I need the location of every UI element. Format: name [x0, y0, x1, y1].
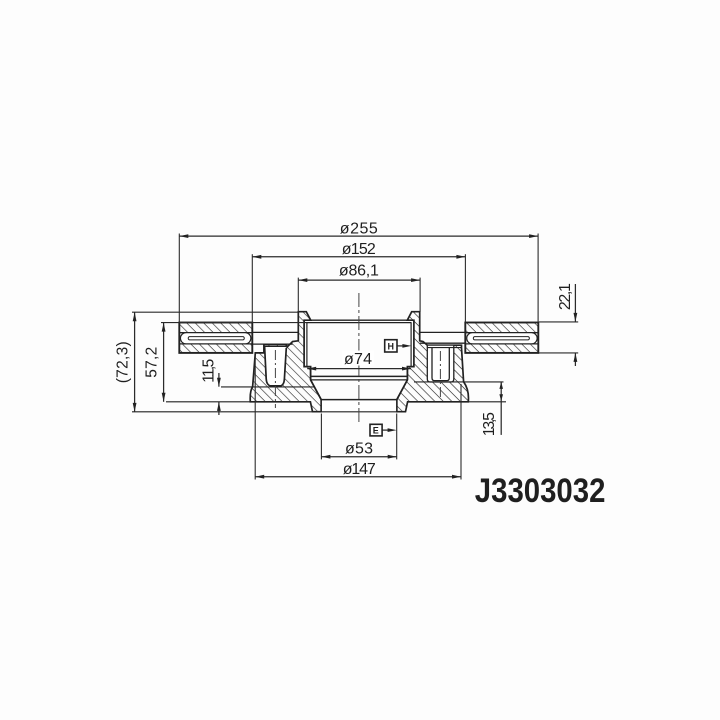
bridge web left lines [252, 331, 298, 333]
dimension Ø255 [179, 220, 538, 322]
hat body hatched mass left [250, 312, 321, 412]
hub bottom line (72.3 extension + hub bottom faces) [132, 411, 406, 413]
bore upper wall left double [303, 323, 305, 367]
svg-text:11,5: 11,5 [201, 359, 218, 383]
svg-text:ø147: ø147 [343, 461, 376, 478]
bore-to-recess chamfer right [397, 380, 408, 400]
bore-to-recess chamfer left [311, 380, 322, 400]
vent slot right inner capsule [473, 337, 529, 340]
hat body hatched mass right [397, 312, 469, 412]
dimension Ø152 [252, 241, 465, 322]
svg-text:(72,3): (72,3) [115, 341, 132, 383]
threaded hole right mouth lines [427, 344, 461, 346]
svg-text:ø152: ø152 [342, 241, 376, 258]
hub recess (white) [321, 400, 397, 412]
dimension 57,2 [144, 323, 307, 402]
svg-text:E: E [373, 426, 379, 436]
svg-text:ø74: ø74 [344, 351, 372, 368]
svg-text:J3303032: J3303032 [475, 472, 606, 510]
label H box [385, 340, 412, 352]
hub recess walls [320, 400, 322, 412]
vent slot left inner capsule [188, 337, 244, 340]
svg-text:ø86,1: ø86,1 [339, 263, 379, 280]
bore step lines [304, 366, 311, 368]
bolt hole left (white cutout) [265, 346, 287, 386]
threaded hole right ID walls [432, 348, 449, 381]
bolt hole left mouth chamfer lines [264, 344, 287, 346]
dimension Ø53 [321, 414, 396, 460]
threaded hole right (white cutout) [427, 345, 454, 382]
dimension 13,5 [481, 382, 503, 436]
hub bore recessed top face lines [307, 319, 412, 321]
svg-text:22,1: 22,1 [557, 283, 574, 310]
dimension (72,3) [115, 312, 299, 412]
flange bottom line (57.2 extension + flange bottom) [166, 401, 310, 403]
flange top edge left [221, 386, 314, 388]
dimension Ø74 [307, 351, 411, 371]
friction band left outline [179, 323, 252, 353]
threaded hole right axis [439, 351, 441, 398]
label E box [370, 424, 397, 436]
svg-text:13,5: 13,5 [481, 412, 498, 436]
dimension 22,1 [539, 283, 578, 366]
vent slot left (white capsule) [180, 333, 250, 344]
bore floor lines [311, 375, 408, 377]
flange top edge right / 13.5 extension [414, 381, 504, 383]
threaded hole right bottom second line [428, 381, 454, 383]
friction band left strip lines [179, 332, 252, 334]
bolt hole left axis [274, 350, 276, 408]
threaded hole right OD walls [427, 345, 454, 382]
friction band right outline [465, 323, 538, 353]
svg-text:57,2: 57,2 [144, 347, 161, 378]
bore lower walls [310, 367, 312, 380]
friction band right strip lines [465, 332, 538, 334]
friction band right hatched strips [465, 323, 538, 333]
dimension Ø86,1 [298, 263, 420, 312]
bore upper wall right double [410, 323, 412, 367]
bridge web right lines [420, 331, 466, 333]
friction band left hatched strips [179, 323, 252, 333]
dimension 11,5 [201, 359, 221, 415]
hub recess ceiling [321, 399, 397, 401]
vent slot right (white capsule) [467, 333, 537, 344]
svg-text:ø53: ø53 [345, 440, 373, 457]
dimension Ø147 [255, 355, 461, 480]
centerline main axis [358, 293, 360, 424]
svg-text:ø255: ø255 [340, 220, 378, 237]
svg-text:H: H [388, 342, 395, 352]
